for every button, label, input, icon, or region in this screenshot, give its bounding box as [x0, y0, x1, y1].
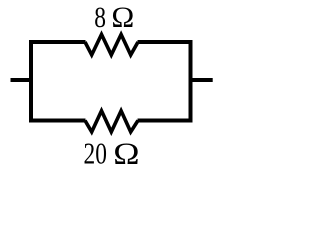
wire bottom-right: [138, 119, 193, 123]
wire top-left: [29, 40, 86, 44]
wire bottom-left: [29, 119, 86, 123]
right terminal lead: [189, 78, 213, 82]
svg-text:Ω: Ω: [113, 137, 139, 168]
resistor R2 (20 ohm): [85, 111, 138, 132]
svg-text:20: 20: [84, 137, 107, 168]
left terminal lead: [11, 78, 34, 82]
wire right vertical: [189, 40, 193, 123]
wire left vertical: [29, 40, 33, 123]
svg-text:Ω: Ω: [111, 2, 134, 34]
wire top-right: [138, 40, 193, 44]
resistor R1 (8 ohm): [85, 34, 138, 55]
svg-text:8: 8: [94, 0, 106, 33]
